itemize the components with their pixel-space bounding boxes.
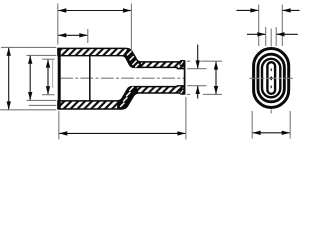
wire: end view horizontal centerline: [250, 77, 293, 79]
node: end view center slot: [267, 62, 275, 94]
wire: end view extension width right: [289, 111, 291, 139]
wire: extension line step (top): [87, 29, 89, 43]
node: end view dimension width: [253, 132, 290, 134]
wire: end view vertical centerline upper: [270, 29, 272, 47]
node: end view dimension ring2 left arrow (outside): [237, 9, 259, 11]
wire: end view vertical centerline lower: [270, 110, 272, 114]
node: left end face bar: [58, 48, 61, 109]
node: dimension OD (far left): [8, 48, 10, 110]
wire: extension line extra bottom: [29, 104, 57, 106]
wire: extension tick inner top: [42, 58, 55, 60]
node: upper wall section (hatched): [58, 48, 184, 68]
node: end view outer ring: [254, 49, 289, 108]
node: end view dimension slot right arrow (outside): [277, 33, 298, 35]
wire: end view extension slot left: [265, 27, 267, 46]
wire: extension line overall length left: [58, 111, 60, 140]
wire: extension line bore bottom: [27, 99, 57, 101]
wire: slot centerline dash upper: [270, 68, 272, 71]
wire: end view extension slot right: [275, 27, 277, 46]
wire: extension tick lip top: [187, 68, 206, 70]
wire: slot centerline dash lower: [270, 86, 272, 89]
node: dimension overall length: [59, 132, 185, 134]
wire: faint auxiliary line left of face: [52, 60, 54, 88]
wire: end view extension ring2 left: [258, 5, 260, 47]
wire: end view extension width left: [251, 111, 253, 139]
node: dimension bead OD: [215, 62, 217, 94]
node: dimension lip opening upper arrow (outside): [197, 45, 199, 69]
wire: extension dash bead OD bottom near part: [187, 93, 191, 95]
node: end view dimension slot left arrow (outside): [247, 33, 266, 35]
wire: end view extension ring2 right: [281, 5, 283, 47]
node: lower wall section (hatched): [58, 86, 184, 109]
node: end view dimension ring2 right arrow (outside): [283, 9, 300, 11]
node: dimension to step: [58, 34, 87, 36]
node: end bead bottom: [179, 88, 185, 94]
wire: extension line taper end (top): [130, 4, 132, 53]
wire: extension line bead OD top: [200, 60, 222, 62]
node: dimension lip opening lower arrow (outside): [197, 86, 199, 99]
node: dimension inner: [47, 60, 49, 95]
node: end bead top: [179, 60, 185, 66]
node: upper taper solid section: [123, 49, 141, 68]
node: dimension length to taper: [58, 10, 131, 12]
wire: extension line bead OD bottom: [203, 93, 222, 95]
wire: extension line left face (top): [57, 4, 59, 45]
node: dimension bore: [29, 56, 31, 100]
node: center diamond: [270, 76, 273, 80]
wire: left-view horizontal centerline: [60, 77, 185, 79]
node: internal step edge: [89, 56, 91, 101]
wire: extension line bore top: [27, 54, 57, 56]
node: lower taper solid section: [117, 87, 139, 109]
wire: extension tick lip bottom: [187, 85, 206, 87]
node: end view ring 2: [258, 54, 284, 102]
wire: extension line overall length right: [185, 97, 187, 140]
wire: extension line OD top: [1, 46, 56, 48]
node: right end face: [184, 60, 186, 94]
wire: extension dash bead OD top near part: [187, 60, 191, 62]
wire: extension line OD bottom: [0, 109, 56, 111]
node: end view ring 3: [262, 59, 280, 98]
wire: extension tick inner bottom: [42, 94, 55, 96]
